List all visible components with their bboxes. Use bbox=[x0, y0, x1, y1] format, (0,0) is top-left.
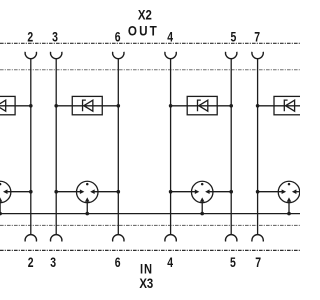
svg-text:5: 5 bbox=[230, 255, 236, 271]
svg-text:3: 3 bbox=[52, 29, 58, 45]
svg-text:7: 7 bbox=[255, 255, 261, 271]
svg-text:X2: X2 bbox=[138, 6, 152, 22]
svg-text:2: 2 bbox=[28, 255, 34, 271]
svg-text:5: 5 bbox=[230, 29, 236, 45]
svg-text:3: 3 bbox=[50, 255, 56, 271]
svg-text:2: 2 bbox=[27, 29, 33, 45]
svg-text:6: 6 bbox=[115, 29, 121, 45]
svg-text:4: 4 bbox=[167, 29, 173, 45]
svg-text:6: 6 bbox=[115, 255, 121, 271]
svg-text:OUT: OUT bbox=[128, 23, 159, 39]
svg-text:X3: X3 bbox=[139, 275, 153, 291]
svg-text:7: 7 bbox=[254, 29, 260, 45]
svg-text:4: 4 bbox=[167, 255, 173, 271]
